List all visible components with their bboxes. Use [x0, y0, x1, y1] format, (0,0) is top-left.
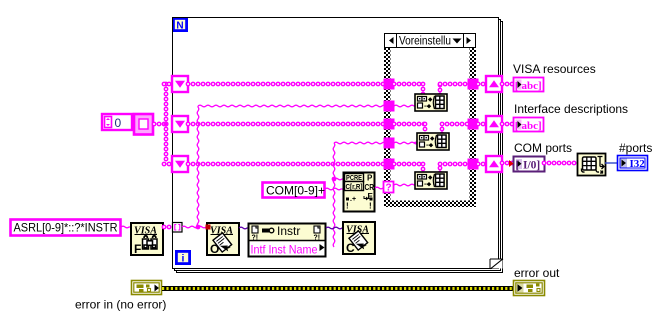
wire: ASRL to find — [121, 226, 132, 228]
wire: case row1 scalar in — [394, 105, 416, 107]
wire: resource to open — [182, 226, 207, 228]
wire: case row3 array in — [394, 162, 423, 167]
wire: case row3 array out — [438, 164, 443, 173]
svg-text:CR: CR — [365, 183, 375, 192]
shift register left 2 — [172, 116, 188, 132]
svg-text:?: ? — [386, 183, 392, 194]
build array 3 — [415, 172, 447, 189]
wire: COM regex to match — [325, 188, 344, 190]
svg-text:#ports: #ports — [619, 141, 652, 155]
svg-text:F: F — [134, 242, 141, 256]
svg-text:error in (no error): error in (no error) — [75, 298, 166, 312]
error in constant — [132, 281, 162, 295]
property node Intf Inst Name — [249, 224, 326, 257]
wire: row2 array to case — [188, 122, 388, 127]
svg-text:Intf Inst Name: Intf Inst Name — [251, 243, 318, 257]
svg-text:0: 0 — [115, 116, 122, 130]
case structure selector bar — [385, 34, 476, 48]
indicator Interface descriptions — [514, 118, 544, 133]
match regular expression node — [344, 173, 375, 212]
case tunnel left row2 array — [384, 119, 395, 130]
wire: row3 array to case — [188, 162, 388, 167]
wire stubs into left shift registers — [164, 82, 173, 87]
shift register right 3 — [486, 156, 502, 172]
case tunnel right row3 — [468, 159, 479, 170]
svg-text:I/0]: I/0] — [523, 160, 540, 172]
svg-text:!: ! — [346, 202, 349, 211]
wire: init array to shift registers — [154, 122, 166, 127]
wire: session property to close — [326, 227, 344, 229]
wire: shift register init vertical — [164, 84, 169, 164]
svg-text:?!: ?! — [252, 235, 259, 242]
svg-text:COM ports: COM ports — [514, 141, 572, 155]
shift register left 3 — [172, 156, 188, 172]
case tunnel left row2 scalar — [384, 138, 395, 149]
svg-text:i: i — [182, 253, 185, 265]
svg-text:VISA resources: VISA resources — [513, 62, 596, 76]
error wire — [162, 286, 513, 291]
svg-text:abc]: abc] — [522, 120, 542, 132]
wire: case row2 scalar in — [394, 142, 418, 144]
indicator #ports I32 — [618, 156, 648, 171]
case tunnel left row3 array — [384, 159, 395, 170]
shift register right 2 — [486, 116, 502, 132]
svg-text:Interface descriptions: Interface descriptions — [514, 102, 628, 116]
svg-text:P: P — [367, 174, 373, 183]
wire: found resource scalar up — [197, 106, 199, 227]
VISA close C — [343, 222, 375, 254]
case structure border (checkered) — [384, 48, 476, 207]
svg-text:COM[0-9]+: COM[0-9]+ — [266, 184, 325, 198]
empty string array constant element — [134, 114, 153, 135]
case selector terminal — [384, 182, 394, 194]
string constant COM — [263, 183, 326, 198]
shift register right 1 — [486, 76, 502, 92]
svg-text:abc]: abc] — [522, 80, 542, 92]
VISA open O — [207, 223, 239, 255]
wire: COM ports to array size — [544, 161, 578, 166]
for loop border — [173, 18, 503, 273]
svg-text:!: ! — [369, 202, 372, 211]
svg-text:C[r,R]: C[r,R] — [346, 184, 363, 191]
svg-text:[: [ — [516, 160, 520, 172]
wire: SR2 to Interface descriptions — [502, 122, 514, 127]
wire: case row1 array in — [394, 82, 423, 87]
svg-text:Voreinstellu: Voreinstellu — [399, 36, 451, 48]
wire: SR3 to COM ports — [502, 161, 514, 166]
svg-text:.+: .+ — [350, 196, 356, 203]
error out indicator — [514, 281, 545, 296]
wire: match result to selector — [375, 187, 384, 189]
svg-text:?!: ?! — [314, 235, 321, 242]
wire: SR1 to VISA resources — [502, 82, 514, 87]
wire: find list to tunnel — [164, 225, 173, 230]
svg-text:ASRL[0-9]*::?*INSTR: ASRL[0-9]*::?*INSTR — [14, 221, 118, 235]
svg-text:Instr: Instr — [277, 224, 300, 238]
for loop i terminal — [175, 250, 191, 265]
shift register left 1 — [172, 76, 188, 92]
indicator VISA resources — [514, 78, 544, 93]
wire: case row1 to SR — [478, 82, 488, 87]
wire: session open to property — [239, 227, 249, 229]
wire: case row1 array out — [438, 84, 443, 95]
string constant ASRL — [11, 220, 121, 236]
case tunnel right row1 — [468, 79, 479, 90]
wire: size to #ports — [605, 162, 618, 164]
build array 1 — [415, 94, 447, 111]
wire: case row2 array in — [394, 122, 425, 127]
VISA find resource F — [131, 223, 163, 255]
array size node — [578, 154, 606, 176]
case tunnel right row2 — [468, 119, 479, 130]
wire: case row3 scalar in — [394, 184, 416, 186]
build array 2 — [417, 133, 449, 150]
for loop corner dog-ear — [490, 259, 503, 269]
indicator COM ports — [509, 157, 545, 172]
wire: interface name scalar up — [333, 143, 335, 247]
for loop N terminal — [172, 17, 188, 32]
wire: case row2 array out — [440, 124, 445, 134]
svg-text:N: N — [176, 20, 183, 31]
wire: case row3 to SR — [478, 162, 488, 167]
coercion dot — [206, 225, 211, 230]
wire: row1 array to case — [188, 82, 388, 87]
array index display of init constant — [102, 114, 132, 130]
wire: case row2 to SR — [478, 122, 488, 127]
junction: name to match input — [332, 177, 337, 182]
case tunnel left row1 scalar — [384, 101, 395, 112]
junction resource branch — [196, 225, 201, 230]
case tunnel left row1 array — [384, 79, 395, 90]
loop indexing tunnel — [173, 223, 183, 233]
svg-text:error out: error out — [514, 266, 560, 280]
svg-text:I32: I32 — [630, 158, 646, 170]
